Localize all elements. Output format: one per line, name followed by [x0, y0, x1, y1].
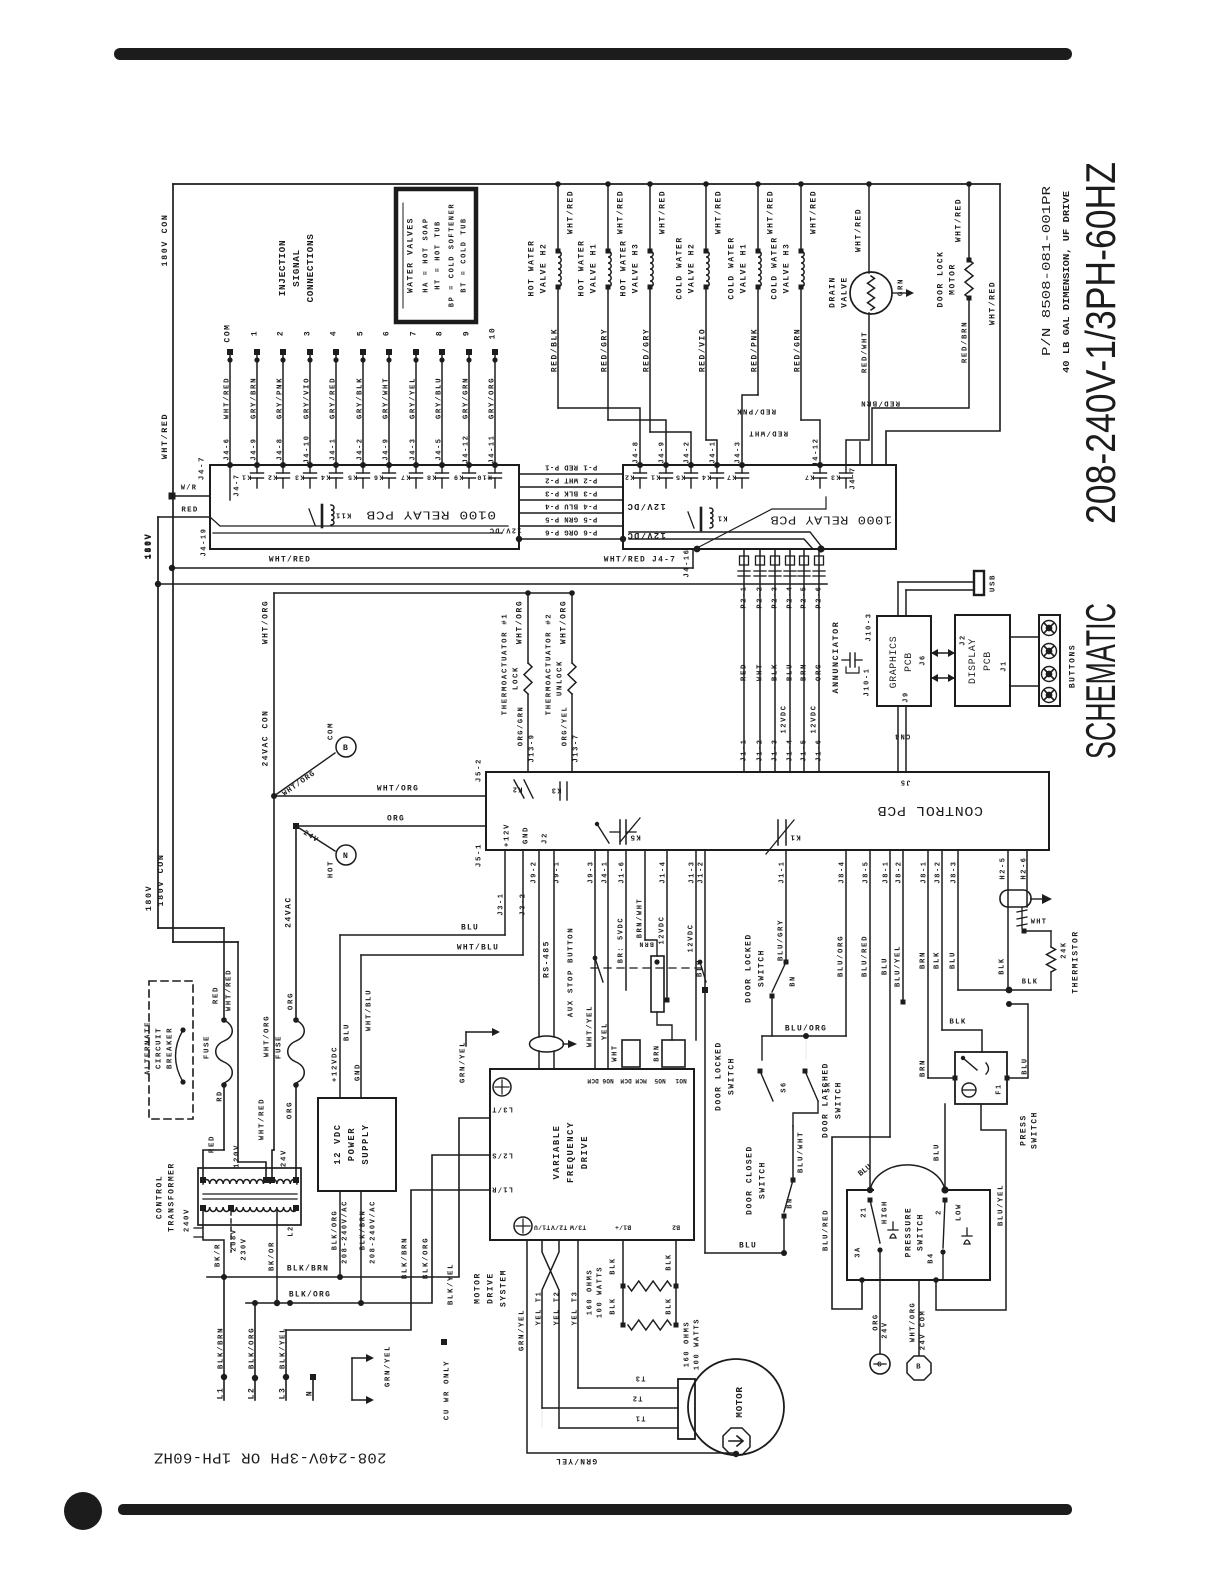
svg-text:WHT/RED: WHT/RED — [223, 377, 231, 419]
svg-text:J1-5: J1-5 — [800, 738, 808, 761]
svg-text:J4-8: J4-8 — [632, 440, 640, 463]
svg-text:RED/GRN: RED/GRN — [794, 328, 803, 372]
svg-text:THERMOACTUATOR #2: THERMOACTUATOR #2 — [545, 613, 553, 716]
box CONTROL PCB — [486, 772, 1049, 850]
svg-text:K2: K2 — [624, 473, 635, 481]
svg-text:160 OHMS: 160 OHMS — [586, 1269, 594, 1315]
svg-text:P2-5: P2-5 — [800, 585, 808, 608]
svg-text:T2/V: T2/V — [551, 1224, 567, 1231]
svg-text:BLK: BLK — [665, 1297, 673, 1314]
aux button component — [644, 850, 646, 940]
svg-text:P-3 BLK P-3: P-3 BLK P-3 — [545, 488, 598, 496]
svg-text:J4-7: J4-7 — [198, 456, 206, 480]
svg-text:J1-2: J1-2 — [756, 738, 764, 761]
motor circle — [688, 1359, 784, 1455]
svg-text:DCM: DCM — [620, 1077, 632, 1084]
svg-text:BLK/YEL: BLK/YEL — [279, 1327, 287, 1369]
wire usb pair — [898, 581, 974, 583]
box DISPLAY PCB — [955, 615, 1010, 706]
svg-text:B1/+: B1/+ — [615, 1224, 631, 1231]
relay contact K9 — [468, 465, 470, 473]
wire bus P-4 BLU P-4 — [519, 512, 623, 514]
svg-text:6: 6 — [383, 330, 392, 336]
wire BRN to mix switch — [927, 850, 929, 1078]
wire W/R J4-7 — [169, 493, 176, 500]
motor drain valve — [866, 181, 872, 187]
svg-text:DOOR CLOSED: DOOR CLOSED — [746, 1145, 755, 1215]
svg-text:DRIVE: DRIVE — [487, 1272, 496, 1304]
svg-text:SCHEMATIC: SCHEMATIC — [1077, 603, 1124, 759]
svg-text:P2-4: P2-4 — [786, 585, 794, 608]
wire WHT/RED J4-7 long — [172, 567, 693, 569]
svg-text:J5: J5 — [899, 777, 910, 785]
mains terminal L3 — [285, 1330, 287, 1400]
relay contact K7 1000 — [819, 465, 821, 473]
relay contact K7 1000 — [741, 465, 743, 473]
svg-text:H2-6: H2-6 — [1020, 856, 1028, 879]
svg-text:CONTROL: CONTROL — [156, 1175, 165, 1219]
svg-text:THERMISTOR: THERMISTOR — [1072, 930, 1081, 993]
svg-text:VALVE H3: VALVE H3 — [783, 243, 792, 294]
wire motor T3 — [577, 1240, 579, 1388]
svg-text:WHT/ORG: WHT/ORG — [262, 600, 271, 644]
svg-text:P-4 BLU P-4: P-4 BLU P-4 — [545, 501, 598, 509]
svg-text:GRY/PNK: GRY/PNK — [276, 377, 284, 419]
svg-text:MOTOR: MOTOR — [949, 263, 958, 295]
svg-text:B: B — [916, 1363, 922, 1371]
svg-text:12VDC: 12VDC — [810, 704, 818, 733]
wire injection 2 GRY/PNK — [280, 349, 286, 355]
svg-text:GND: GND — [354, 1063, 362, 1081]
svg-text:J13-7: J13-7 — [572, 733, 580, 762]
svg-text:J10-1: J10-1 — [863, 667, 871, 696]
svg-text:BLK: BLK — [1022, 978, 1039, 986]
svg-text:VALVE H3: VALVE H3 — [632, 243, 641, 294]
wire BLU/YEL right — [902, 850, 904, 1002]
usb connector — [974, 571, 984, 595]
wire RS-485 pair — [538, 850, 540, 1037]
svg-text:W/R: W/R — [181, 484, 198, 492]
svg-text:BLK/BRN: BLK/BRN — [287, 1265, 329, 1274]
svg-text:GRY/BLU: GRY/BLU — [435, 377, 443, 419]
svg-text:BLU/RED: BLU/RED — [822, 1209, 830, 1251]
svg-text:VALVE H2: VALVE H2 — [688, 243, 697, 294]
svg-text:0100 RELAY PCB: 0100 RELAY PCB — [366, 508, 496, 522]
wire bus BLK J1-3 — [774, 549, 776, 772]
svg-text:J13-9: J13-9 — [528, 733, 536, 762]
svg-text:J1-1: J1-1 — [740, 738, 748, 761]
svg-text:BN: BN — [789, 975, 797, 987]
svg-text:J4-11: J4-11 — [488, 434, 496, 463]
relay contact K7 — [415, 465, 417, 473]
crystal component — [842, 659, 850, 661]
svg-text:GRN/YEL: GRN/YEL — [555, 1456, 597, 1465]
svg-text:BRN: BRN — [919, 1059, 927, 1077]
svg-text:BP = COLD SOFTENER: BP = COLD SOFTENER — [448, 203, 456, 307]
svg-text:UNLOCK: UNLOCK — [556, 660, 564, 696]
svg-text:208V: 208V — [230, 1228, 238, 1251]
svg-text:SWITCH: SWITCH — [1031, 1111, 1040, 1149]
svg-text:+12VDC: +12VDC — [331, 1046, 339, 1082]
svg-text:J8-2: J8-2 — [895, 860, 903, 883]
svg-text:J4-2: J4-2 — [683, 440, 691, 463]
relay contact K5 — [362, 465, 364, 473]
1000 pcb internal rails 12VDC — [629, 532, 821, 546]
svg-text:RED/BLK: RED/BLK — [551, 328, 560, 372]
legend box WATER VALVES — [396, 189, 476, 322]
svg-text:WHT: WHT — [611, 1044, 619, 1061]
svg-text:SUPPLY: SUPPLY — [361, 1123, 371, 1164]
svg-text:24V: 24V — [881, 1321, 889, 1338]
svg-text:ORG: ORG — [286, 1101, 294, 1119]
alternate circuit breaker dashed box — [149, 981, 193, 1119]
svg-text:BREAKER: BREAKER — [166, 1027, 174, 1069]
relay K3 control — [559, 782, 561, 800]
svg-text:J4-7: J4-7 — [233, 473, 241, 496]
svg-text:J8-3: J8-3 — [950, 860, 958, 883]
solenoid COLD WATER VALVE H2 — [703, 181, 709, 187]
svg-text:K4: K4 — [320, 473, 331, 481]
svg-text:PCB: PCB — [903, 652, 914, 672]
svg-text:BLK: BLK — [609, 1297, 617, 1314]
svg-text:K7: K7 — [726, 473, 737, 481]
svg-text:YEL T2: YEL T2 — [553, 1291, 561, 1326]
svg-text:B4: B4 — [927, 1252, 935, 1264]
svg-text:MOTOR: MOTOR — [474, 1272, 483, 1304]
svg-text:COM: COM — [327, 722, 335, 740]
svg-text:WHT/RED: WHT/RED — [160, 413, 170, 459]
svg-text:LOW: LOW — [955, 1203, 963, 1221]
wire BLU long — [704, 850, 706, 1253]
svg-text:WHT/ORG: WHT/ORG — [909, 1302, 917, 1343]
wire BLU arc hop — [889, 850, 891, 1137]
wire BLU/ORG right — [845, 850, 847, 1036]
relay contact K2 — [282, 465, 284, 473]
svg-text:J9: J9 — [902, 691, 910, 703]
svg-text:SWITCH: SWITCH — [759, 1161, 768, 1199]
svg-text:RD: RD — [216, 1090, 224, 1102]
svg-text:10: 10 — [489, 327, 498, 340]
svg-text:GRY/BRN: GRY/BRN — [250, 377, 258, 419]
svg-text:BRN: BRN — [638, 941, 654, 948]
svg-text:RED: RED — [208, 1135, 216, 1153]
svg-text:BK/R: BK/R — [214, 1243, 222, 1267]
svg-text:RED/BRN: RED/BRN — [961, 321, 969, 363]
svg-text:100 WATTS: 100 WATTS — [693, 1318, 701, 1370]
svg-text:WHT/RED J4-7: WHT/RED J4-7 — [604, 556, 676, 565]
svg-text:L3: L3 — [279, 1387, 288, 1400]
svg-text:L3/T: L3/T — [491, 1104, 513, 1112]
svg-text:J4-2: J4-2 — [356, 437, 364, 460]
svg-text:MOTOR: MOTOR — [734, 1386, 745, 1417]
svg-text:RED/BRN: RED/BRN — [860, 398, 900, 406]
wire injection 1 GRY/BRN — [254, 349, 260, 355]
svg-text:WHT/RED: WHT/RED — [269, 556, 311, 565]
svg-text:NO5: NO5 — [654, 1077, 666, 1084]
svg-text:WHT/RED: WHT/RED — [567, 190, 576, 234]
svg-text:J1-6: J1-6 — [618, 860, 626, 883]
svg-text:L1: L1 — [217, 1387, 226, 1400]
svg-text:P-5 GRN P-5: P-5 GRN P-5 — [545, 514, 598, 522]
wire pressure to indicator B — [918, 1280, 920, 1355]
svg-text:24K: 24K — [1060, 941, 1068, 958]
wire injection 6 GRY/WHT — [386, 349, 392, 355]
svg-text:HOT: HOT — [327, 860, 335, 878]
svg-text:J4-1: J4-1 — [601, 860, 609, 883]
svg-text:DOOR LATCHED: DOOR LATCHED — [822, 1062, 831, 1138]
svg-text:CONTROL PCB: CONTROL PCB — [877, 802, 983, 818]
svg-text:BLU/YEL: BLU/YEL — [997, 1184, 1005, 1226]
svg-text:RED/WHT: RED/WHT — [861, 331, 869, 373]
svg-text:J4-12: J4-12 — [462, 434, 470, 463]
svg-text:ANNUNCIATOR: ANNUNCIATOR — [831, 621, 841, 694]
svg-text:GRY/YEL: GRY/YEL — [409, 377, 417, 419]
svg-text:MCM: MCM — [635, 1077, 647, 1084]
svg-text:J9-3: J9-3 — [587, 860, 595, 883]
svg-text:J5-2: J5-2 — [475, 758, 483, 782]
svg-text:DISPLAY: DISPLAY — [967, 638, 978, 684]
wire bus ORG J1-6 — [818, 549, 820, 772]
svg-text:PRESSURE: PRESSURE — [905, 1207, 914, 1258]
svg-text:BLU: BLU — [881, 957, 889, 975]
svg-text:BRN: BRN — [919, 951, 927, 969]
svg-text:BLU: BLU — [857, 1163, 874, 1179]
wire bus P-6 ORG P-6 — [519, 538, 623, 540]
wire BLK to mix switch — [941, 850, 943, 1030]
svg-text:BLU/WHT: BLU/WHT — [797, 1131, 805, 1173]
svg-text:12V/DC: 12V/DC — [626, 501, 665, 511]
wire graphics to display — [931, 652, 955, 654]
solenoid COLD WATER VALVE H1 — [755, 181, 761, 187]
svg-text:LOCK: LOCK — [512, 666, 520, 690]
thermoactuator #2 UNLOCK — [569, 590, 575, 596]
wire bus RED J1-1 — [743, 549, 745, 772]
svg-text:BLK: BLK — [665, 1253, 673, 1270]
svg-text:WHT/RED: WHT/RED — [659, 190, 668, 234]
svg-text:J8-5: J8-5 — [862, 860, 870, 883]
svg-text:P2-6: P2-6 — [815, 585, 823, 608]
svg-text:BT = COLD TUB: BT = COLD TUB — [460, 217, 468, 292]
wire 180V top bus — [173, 183, 1000, 185]
svg-text:B: B — [343, 743, 349, 753]
svg-text:K7: K7 — [400, 473, 411, 481]
wire injection 7 GRY/YEL — [413, 349, 419, 355]
svg-text:RED/WHT: RED/WHT — [748, 428, 788, 436]
wire WHT/ORG to J5-2 — [274, 795, 486, 797]
svg-text:WHT/RED: WHT/RED — [989, 281, 998, 325]
terminal N — [310, 1374, 316, 1380]
svg-text:GRY/VIO: GRY/VIO — [303, 377, 311, 419]
svg-text:RED: RED — [212, 986, 220, 1004]
svg-text:208-240V-3PH OR 1PH-60HZ: 208-240V-3PH OR 1PH-60HZ — [154, 1449, 387, 1465]
svg-text:BLK/ORG: BLK/ORG — [331, 1210, 339, 1251]
svg-text:J10-3: J10-3 — [865, 612, 873, 641]
svg-text:240V: 240V — [183, 1208, 191, 1232]
box VARIABLE FREQUENCY DRIVE — [490, 1069, 694, 1240]
svg-text:COLD WATER: COLD WATER — [676, 236, 685, 299]
svg-text:DCM: DCM — [587, 1077, 599, 1084]
svg-text:ORG: ORG — [815, 663, 823, 681]
mains terminal L2 — [254, 1303, 256, 1400]
svg-text:12VDC: 12VDC — [687, 923, 695, 952]
svg-text:L2: L2 — [287, 1225, 295, 1237]
svg-text:J3-2: J3-2 — [519, 892, 527, 915]
svg-text:GRY/WHT: GRY/WHT — [382, 377, 390, 419]
svg-text:K4: K4 — [701, 473, 712, 481]
wire PSU to bus1 — [339, 1191, 341, 1277]
page bottom rule — [118, 1504, 1072, 1515]
relay coil K5 control — [619, 820, 621, 844]
wire GND WHT/BLU — [360, 955, 362, 1098]
svg-text:P2-2: P2-2 — [756, 585, 764, 608]
svg-text:HOT WATER: HOT WATER — [620, 239, 629, 296]
svg-text:T2: T2 — [631, 1393, 642, 1401]
wire 12VDC J1-3 — [666, 850, 668, 1000]
wire injection 3 GRY/VIO — [307, 349, 313, 355]
wire bus BLU J1-4 — [789, 549, 791, 772]
svg-text:WHT: WHT — [1031, 918, 1048, 926]
wire mains bus2 BLK/ORG — [246, 1155, 490, 1303]
svg-text:J4-6: J4-6 — [223, 437, 231, 460]
buttons strip — [1039, 615, 1060, 706]
svg-text:1: 1 — [251, 330, 260, 336]
svg-text:NO1: NO1 — [675, 1077, 687, 1084]
svg-text:T1: T1 — [634, 1413, 645, 1421]
svg-text:100 WATTS: 100 WATTS — [596, 1266, 604, 1318]
relay contact K3 — [309, 465, 311, 473]
svg-text:WHT/ORG: WHT/ORG — [377, 785, 419, 794]
svg-text:180V CON: 180V CON — [160, 213, 170, 266]
svg-text:5: 5 — [357, 330, 366, 336]
svg-text:180V CON: 180V CON — [156, 853, 166, 906]
svg-text:WHT/RED: WHT/RED — [767, 190, 776, 234]
svg-text:CU WR ONLY: CU WR ONLY — [443, 1360, 451, 1420]
svg-text:J4-3: J4-3 — [409, 437, 417, 460]
svg-text:J4-8: J4-8 — [276, 437, 284, 460]
svg-text:WHT/YEL: WHT/YEL — [586, 1005, 594, 1047]
wire motor ground GRN/YEL — [527, 1240, 734, 1453]
page top rule — [114, 48, 1072, 60]
svg-text:J1-3: J1-3 — [688, 860, 696, 883]
wire BLU bottom — [705, 1252, 784, 1254]
svg-text:USB: USB — [989, 574, 997, 592]
wire 180V long bus — [158, 583, 827, 585]
svg-text:AUX STOP BUTTON: AUX STOP BUTTON — [567, 927, 575, 1018]
wire 12VDC second — [695, 850, 697, 1040]
svg-text:YEL T1: YEL T1 — [535, 1291, 543, 1326]
svg-text:J8-4: J8-4 — [838, 860, 846, 883]
svg-text:9: 9 — [463, 330, 472, 336]
wire BLU/YEL loop — [936, 1104, 1006, 1310]
svg-text:TRANSFORMER: TRANSFORMER — [168, 1162, 177, 1232]
pressure contact high — [868, 1198, 873, 1203]
svg-text:HA = HOT SOAP: HA = HOT SOAP — [422, 217, 430, 292]
svg-text:BLU/ORG: BLU/ORG — [837, 935, 845, 977]
svg-text:K2: K2 — [511, 784, 522, 792]
wire thermo top bus — [274, 592, 572, 594]
svg-text:24V: 24V — [301, 829, 319, 845]
svg-text:WHT/RED: WHT/RED — [617, 190, 626, 234]
svg-text:DRAIN: DRAIN — [829, 276, 838, 308]
grn/yel ground arrow top — [466, 1031, 492, 1033]
box 12 VDC POWER SUPPLY — [318, 1098, 396, 1191]
svg-text:K6: K6 — [373, 473, 384, 481]
svg-text:K3: K3 — [294, 473, 305, 481]
relay contact K8 — [441, 465, 443, 473]
svg-text:K8: K8 — [426, 473, 437, 481]
svg-text:G: G — [877, 1361, 883, 1369]
svg-text:J1-1: J1-1 — [778, 860, 786, 883]
solenoid HOT WATER VALVE H1 — [605, 181, 611, 187]
thermistor resistor branch — [958, 989, 1009, 991]
svg-text:K11: K11 — [335, 510, 352, 518]
motor connector — [678, 1379, 695, 1439]
svg-text:J2: J2 — [959, 634, 967, 646]
svg-text:NO6: NO6 — [602, 1077, 614, 1084]
svg-text:J6: J6 — [919, 654, 927, 666]
svg-text:L2/S: L2/S — [491, 1150, 513, 1158]
svg-text:P/N 8508-081-001PR: P/N 8508-081-001PR — [1040, 186, 1054, 356]
wire bus P-2 WHT P-2 — [519, 486, 623, 488]
svg-text:WHT/RED: WHT/RED — [955, 198, 964, 242]
svg-text:ORG/GRN: ORG/GRN — [517, 706, 525, 747]
svg-text:DOOR LOCK: DOOR LOCK — [937, 250, 946, 307]
relay contact K5 1000 — [690, 465, 692, 473]
svg-text:12VDC: 12VDC — [780, 704, 788, 733]
svg-text:+12V: +12V — [503, 823, 511, 847]
transformer leads bottom — [203, 1211, 224, 1277]
svg-text:WHT/BLU: WHT/BLU — [365, 989, 373, 1031]
wire aux stop 1 — [594, 850, 596, 1069]
wire RED from 0100 box — [158, 516, 210, 518]
indicator G circle — [870, 1354, 890, 1374]
svg-text:ORG: ORG — [872, 1313, 880, 1330]
thermistor — [1007, 850, 1009, 990]
svg-text:P2-3: P2-3 — [771, 585, 779, 608]
ground terminal cluster — [351, 1358, 353, 1400]
svg-text:N: N — [343, 851, 349, 861]
vfd earth terminal bottom — [514, 1217, 532, 1235]
svg-text:BLK: BLK — [949, 1018, 966, 1026]
svg-text:J3-1: J3-1 — [497, 892, 505, 915]
svg-text:WHT/RED: WHT/RED — [715, 190, 724, 234]
svg-text:SYSTEM: SYSTEM — [500, 1269, 509, 1307]
box 0100 RELAY PCB — [210, 465, 519, 549]
svg-text:J4-1: J4-1 — [709, 440, 717, 463]
svg-text:J9-1: J9-1 — [553, 860, 561, 883]
svg-text:SWITCH: SWITCH — [758, 949, 767, 987]
svg-text:BLK: BLK — [933, 951, 941, 969]
relay contact K10 — [494, 465, 496, 473]
svg-text:K2: K2 — [267, 473, 278, 481]
svg-text:J4-5: J4-5 — [435, 437, 443, 460]
svg-text:POWER: POWER — [347, 1127, 357, 1161]
svg-text:SWITCH: SWITCH — [728, 1057, 737, 1095]
wire door lock to relay — [872, 298, 969, 465]
svg-text:BUTTONS: BUTTONS — [1069, 644, 1078, 688]
svg-text:RED/VIO: RED/VIO — [699, 328, 708, 372]
relay contact K4 — [335, 465, 337, 473]
aux stop switch — [593, 956, 598, 961]
wire J1-6 brn — [625, 850, 627, 990]
pressure switch outer loop — [832, 1137, 890, 1309]
buzzer HOT circle — [296, 826, 335, 851]
solenoid HOT WATER VALVE H2 — [555, 181, 561, 187]
svg-text:BLU: BLU — [343, 1023, 351, 1041]
svg-text:DOOR LOCKED: DOOR LOCKED — [715, 1041, 724, 1111]
svg-text:BLU: BLU — [933, 1143, 941, 1161]
pressure bottom terminals — [877, 1247, 882, 1252]
